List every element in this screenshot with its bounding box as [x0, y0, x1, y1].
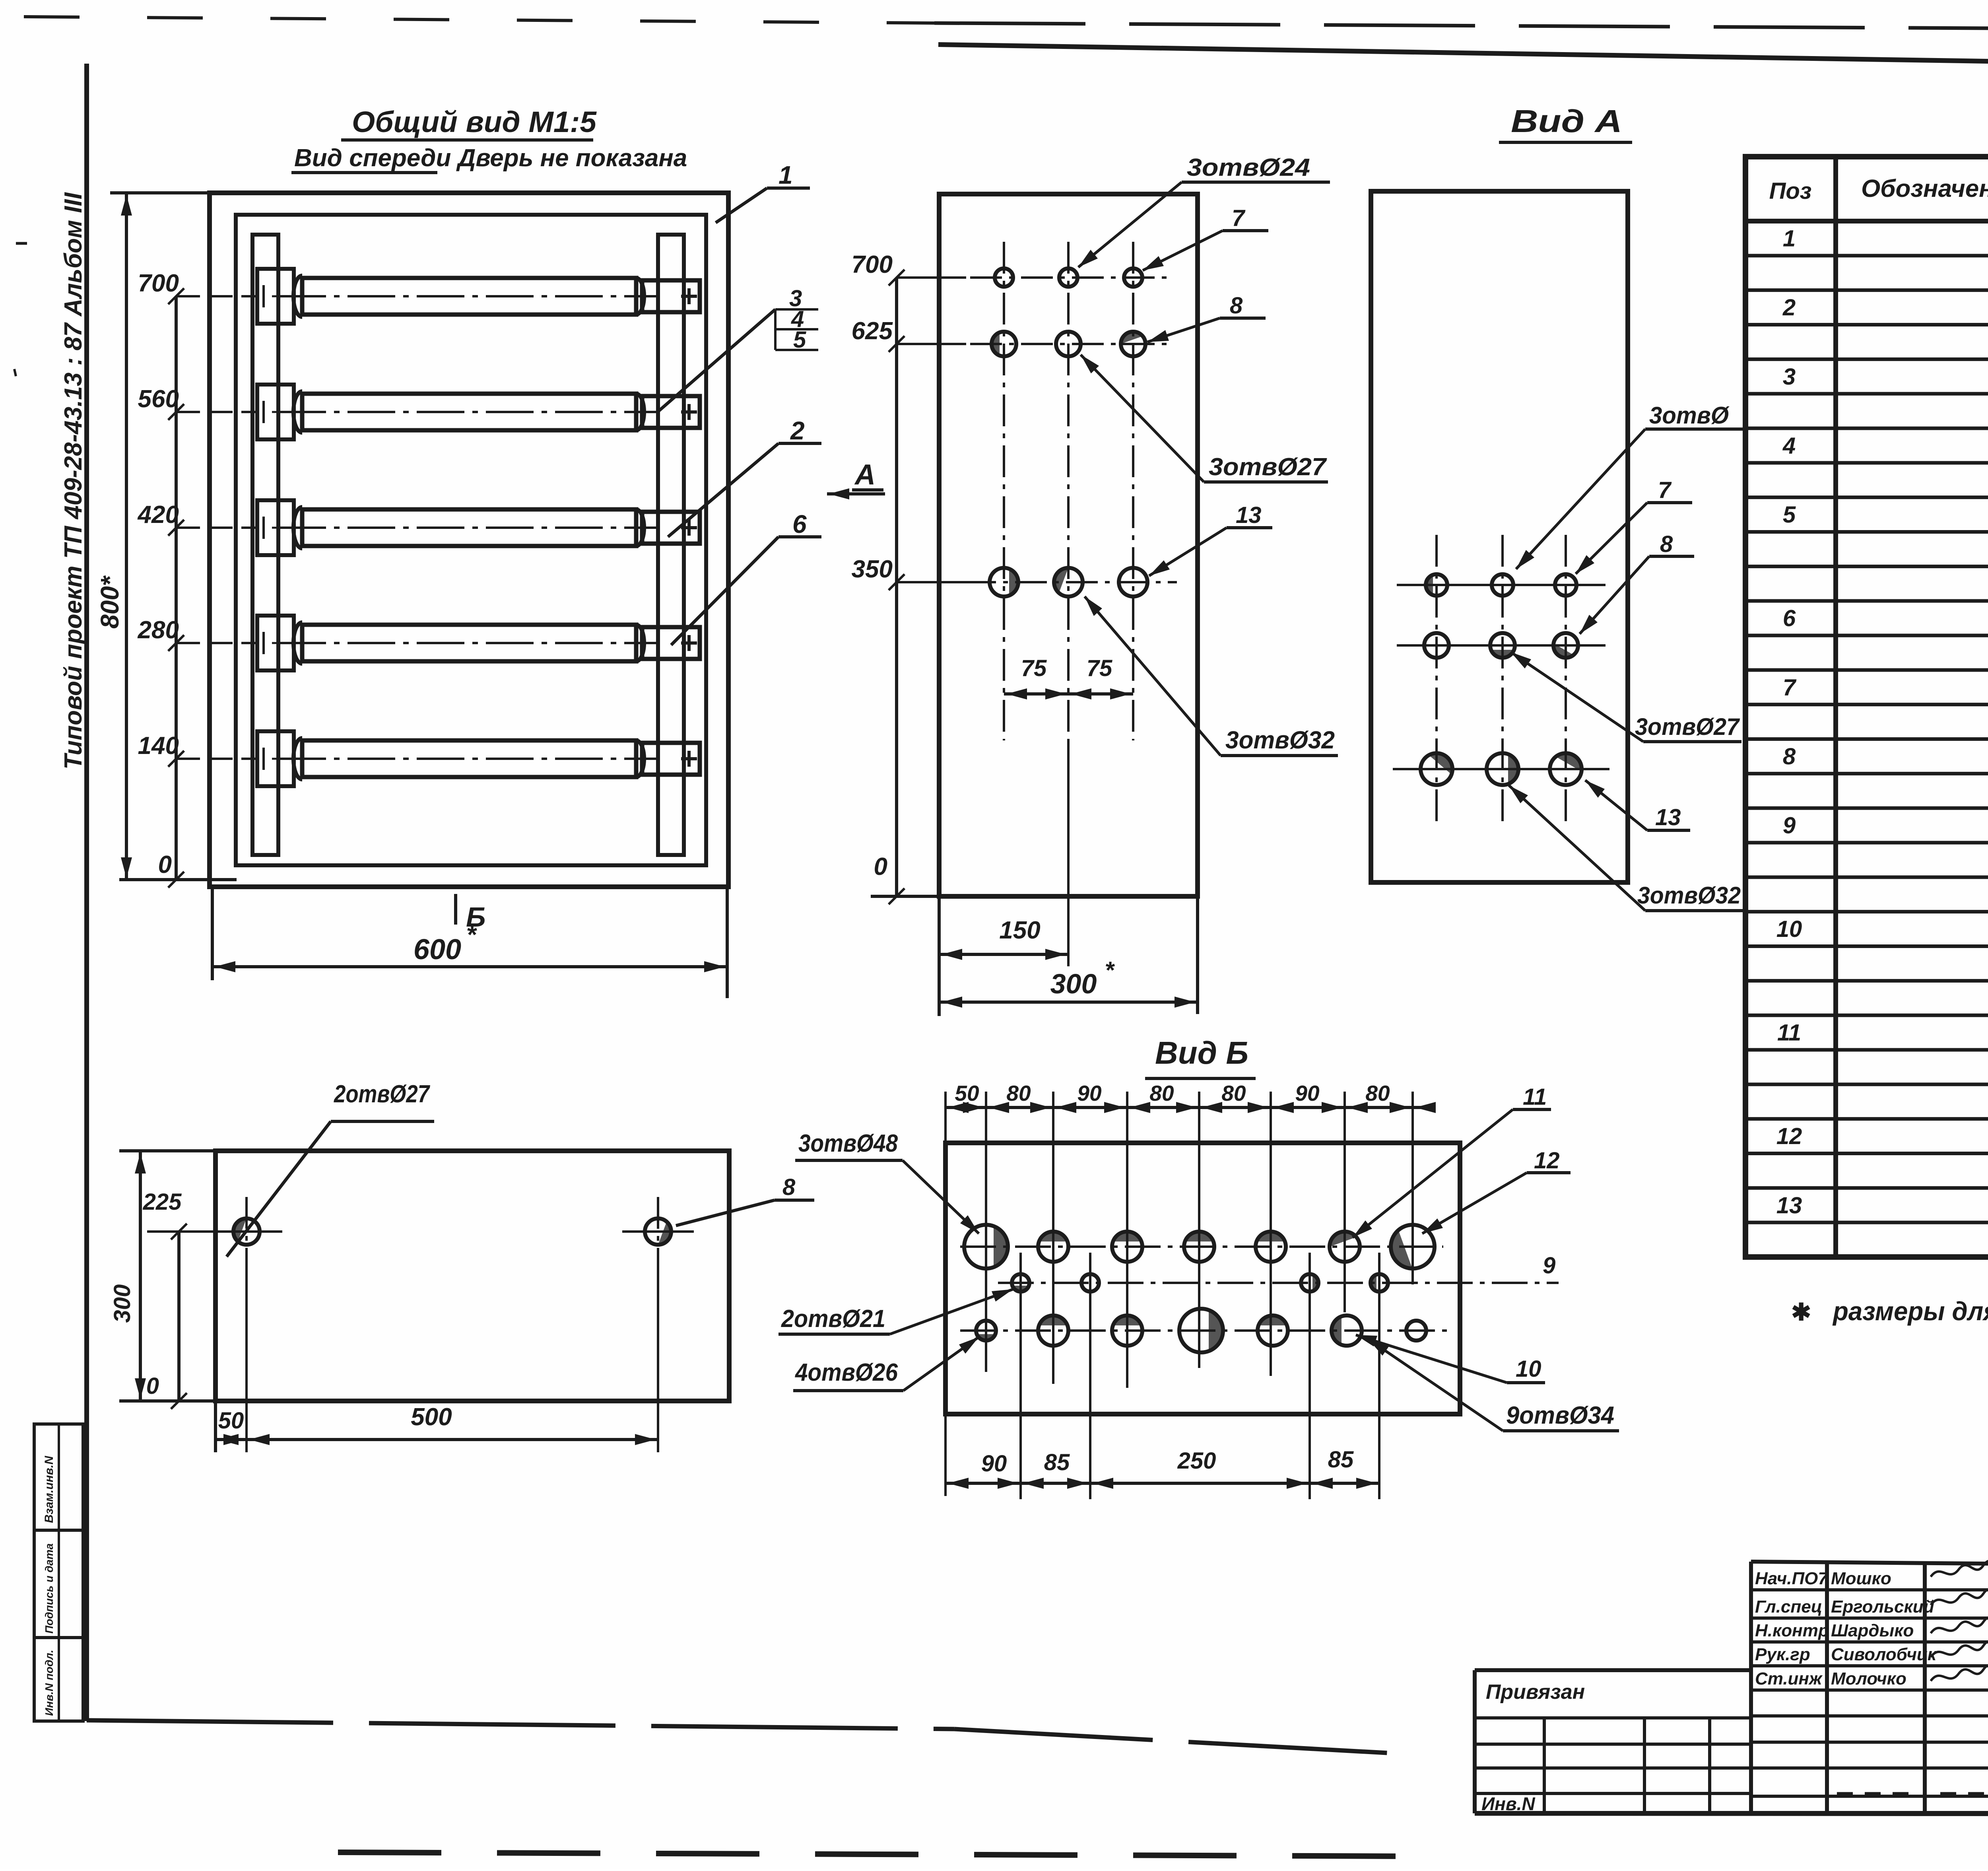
svg-text:3отвØ27: 3отвØ27 [1635, 713, 1740, 740]
svg-text:8: 8 [1230, 293, 1243, 319]
terminal rail assembly 5 [257, 731, 700, 786]
svg-text:7: 7 [1232, 205, 1246, 231]
svg-text:300: 300 [109, 1284, 135, 1323]
svg-text:Привязан: Привязан [1486, 1681, 1585, 1704]
front view: section mark Б [454, 894, 457, 925]
svg-text:3отвØ32: 3отвØ32 [1225, 727, 1335, 754]
svg-text:80: 80 [1365, 1081, 1390, 1106]
svg-text:Сиволобчик: Сиволобчик [1831, 1645, 1938, 1664]
stray scan marks [16, 242, 27, 245]
svg-text:Типовой проект ТП 409-28-43: Типовой проект ТП 409-28-43.13 : 87 Альб… [60, 192, 87, 769]
view Б top dim chain 50 80 90 80 80 90 80 [945, 1106, 1427, 1109]
svg-text:1: 1 [1783, 225, 1796, 251]
view Б hole column lines [985, 1092, 987, 1372]
svg-text:3отвØ48: 3отвØ48 [798, 1130, 898, 1157]
svg-text:800*: 800* [95, 575, 124, 629]
svg-text:700: 700 [852, 251, 893, 278]
view A holes row3 [1421, 753, 1452, 785]
svg-text:Инв.N: Инв.N [1481, 1793, 1535, 1814]
svg-text:11: 11 [1523, 1084, 1547, 1110]
view Б plate [945, 1143, 1460, 1414]
side view holes row2 Ø27 [992, 332, 1016, 356]
sheet top edge (torn scan edge) [24, 17, 934, 23]
svg-text:Подпись и дата: Подпись и дата [43, 1543, 55, 1634]
svg-text:90: 90 [981, 1451, 1007, 1477]
svg-text:Нач.ПО7: Нач.ПО7 [1755, 1569, 1829, 1588]
svg-text:560: 560 [138, 385, 179, 413]
svg-text:13: 13 [1236, 502, 1262, 528]
bottom plate dims bottom 50 500 [214, 1401, 217, 1452]
svg-text:Б: Б [466, 901, 486, 933]
title block signature table [1751, 1562, 1988, 1564]
svg-text:12: 12 [1776, 1123, 1802, 1149]
svg-text:Вид А: Вид А [1511, 103, 1622, 139]
view Б holes bottom row [976, 1321, 996, 1341]
dashes in empty cells [1837, 1792, 1908, 1795]
svg-text:10: 10 [1776, 916, 1802, 942]
view A hole centerlines [1435, 535, 1438, 825]
svg-text:140: 140 [138, 732, 179, 760]
view A holes row2 [1424, 633, 1449, 658]
svg-text:Поз: Поз [1769, 178, 1812, 204]
svg-text:Вид спереди Дверь не показан: Вид спереди Дверь не показана [294, 144, 687, 172]
svg-text:8: 8 [1783, 744, 1796, 769]
svg-text:А: А [854, 459, 876, 491]
svg-text:600: 600 [414, 934, 461, 966]
svg-text:85: 85 [1328, 1447, 1354, 1473]
svg-text:6: 6 [1783, 606, 1796, 631]
svg-text:280: 280 [138, 616, 179, 644]
svg-text:Общий вид М1:5: Общий вид М1:5 [352, 105, 597, 138]
side view row centerlines [970, 276, 1174, 279]
front view: bottom dim 600* [211, 887, 214, 980]
svg-text:5: 5 [1783, 502, 1796, 528]
svg-text:Мошко: Мошко [1831, 1569, 1891, 1588]
view Б row centerlines [960, 1245, 1443, 1248]
svg-text:75: 75 [1087, 655, 1112, 681]
svg-text:Шардыко: Шардыко [1831, 1621, 1914, 1640]
svg-text:85: 85 [1044, 1449, 1070, 1475]
front view: enclosure inner box [236, 215, 706, 865]
svg-text:9отвØ34: 9отвØ34 [1506, 1402, 1614, 1429]
svg-text:80: 80 [1006, 1081, 1031, 1106]
front view: left dimension chain line [175, 296, 178, 880]
front view: left mounting rail [252, 235, 278, 855]
view Б holes top row [964, 1225, 1008, 1269]
frame left line [84, 64, 89, 1721]
svg-text:9: 9 [1543, 1253, 1555, 1278]
привязан box [1475, 1668, 1751, 1672]
left margin stamp [34, 1424, 83, 1721]
side view holes row3 Ø32 [990, 568, 1018, 596]
svg-text:50: 50 [218, 1408, 244, 1434]
svg-text:90: 90 [1077, 1081, 1102, 1106]
svg-text:Рук.гр: Рук.гр [1755, 1645, 1810, 1664]
view Б vertical hole extensions for bottom dims [1019, 1253, 1022, 1499]
view A holes row1 [1426, 574, 1447, 596]
svg-text:Инв.N подл.: Инв.N подл. [43, 1650, 55, 1716]
svg-text:12: 12 [1534, 1148, 1560, 1174]
svg-text:Взам.инв.N: Взам.инв.N [43, 1455, 56, 1523]
svg-text:2: 2 [1782, 295, 1796, 321]
svg-text:0: 0 [158, 851, 172, 878]
front view: overall height dim 800* [125, 193, 128, 880]
svg-text:3отвØ27: 3отвØ27 [1209, 453, 1327, 481]
svg-text:13: 13 [1776, 1193, 1802, 1218]
svg-text:8: 8 [1660, 531, 1673, 557]
svg-text:10: 10 [1516, 1356, 1541, 1382]
svg-text:11: 11 [1777, 1020, 1801, 1046]
sheet bottom edge [338, 1852, 1415, 1856]
terminal rail assembly 3 [257, 500, 700, 555]
svg-text:250: 250 [1177, 1448, 1216, 1474]
svg-text:8: 8 [782, 1174, 796, 1200]
side view dim 300* [1196, 896, 1199, 1014]
svg-text:4отвØ26: 4отвØ26 [794, 1359, 898, 1386]
svg-text:2: 2 [790, 416, 805, 445]
svg-text:3отвØ: 3отвØ [1649, 402, 1730, 429]
svg-text:2отвØ21: 2отвØ21 [781, 1305, 885, 1333]
svg-text:Вид Б: Вид Б [1155, 1035, 1248, 1071]
svg-text:*: * [1105, 957, 1115, 983]
bottom plate holes 2отвØ27 [233, 1218, 260, 1245]
svg-text:90: 90 [1295, 1081, 1320, 1106]
svg-text:625: 625 [852, 317, 893, 345]
parts table frame [1745, 157, 1988, 1257]
svg-text:0: 0 [146, 1373, 159, 1399]
svg-text:2отвØ27: 2отвØ27 [334, 1080, 430, 1108]
svg-text:размеры для справок: размеры для справок [1832, 1296, 1988, 1326]
terminal rail assembly 1 [257, 269, 700, 324]
svg-text:Гл.спец: Гл.спец [1755, 1597, 1822, 1616]
side view dim 75 75 [1004, 692, 1133, 696]
svg-text:80: 80 [1221, 1081, 1246, 1106]
terminal rail assembly 2 [257, 385, 700, 439]
view Б holes middle row [1012, 1274, 1029, 1292]
svg-text:1: 1 [779, 161, 793, 189]
bottom plate [215, 1151, 729, 1401]
bottom plate dims left [119, 1149, 217, 1152]
svg-text:6: 6 [792, 510, 807, 538]
front view: right mounting rail [658, 235, 684, 855]
svg-text:500: 500 [411, 1403, 452, 1431]
svg-text:3отвØ24: 3отвØ24 [1187, 154, 1310, 181]
svg-text:150: 150 [999, 917, 1040, 944]
svg-text:0: 0 [874, 853, 887, 880]
svg-text:Ст.инж: Ст.инж [1755, 1669, 1823, 1688]
svg-text:3: 3 [1783, 364, 1796, 390]
view Б bottom dim chain 90 85 250 85 [944, 1414, 947, 1496]
frame bottom line [87, 1720, 954, 1729]
view A plate [1371, 191, 1628, 882]
svg-text:700: 700 [138, 270, 179, 297]
svg-text:7: 7 [1658, 477, 1672, 503]
svg-text:420: 420 [137, 501, 179, 528]
svg-text:13: 13 [1655, 804, 1681, 830]
svg-text:300: 300 [1050, 968, 1097, 999]
svg-text:225: 225 [143, 1189, 182, 1215]
svg-text:✱: ✱ [1791, 1299, 1811, 1325]
terminal rail assembly 4 [257, 616, 700, 670]
svg-text:75: 75 [1021, 655, 1047, 681]
frame top line [938, 45, 1988, 70]
svg-text:Н.контр: Н.контр [1755, 1621, 1829, 1640]
svg-text:Обозначение: Обозначение [1861, 175, 1988, 202]
svg-text:Ергольский: Ергольский [1831, 1597, 1934, 1616]
svg-text:9: 9 [1783, 813, 1796, 839]
svg-text:7: 7 [1783, 674, 1797, 700]
side view plate [939, 194, 1198, 896]
front view: enclosure outer box [210, 193, 728, 887]
side view holes row1 Ø24 [995, 268, 1013, 287]
side view left dim chain [895, 278, 898, 896]
svg-text:350: 350 [852, 556, 893, 583]
svg-text:3отвØ32: 3отвØ32 [1637, 882, 1741, 909]
side view dim 150 [1067, 740, 1070, 966]
svg-text:Молочко: Молочко [1831, 1669, 1906, 1688]
svg-text:50: 50 [955, 1081, 979, 1106]
svg-text:4: 4 [1782, 433, 1796, 459]
svg-text:80: 80 [1149, 1081, 1174, 1106]
side view hole column centerlines [1003, 242, 1005, 740]
